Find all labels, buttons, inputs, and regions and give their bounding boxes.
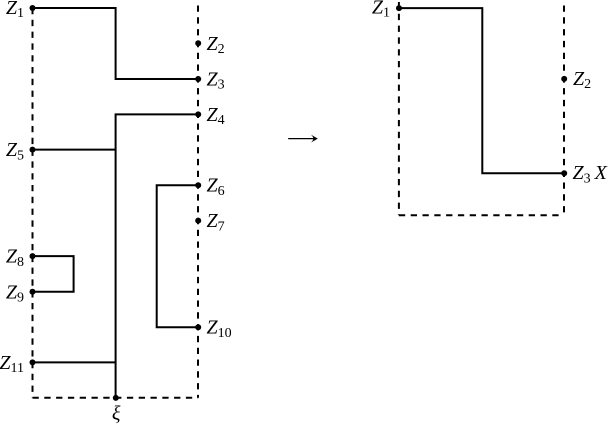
point Z6 — [195, 182, 201, 188]
right region dashed boundary right edge — [563, 6, 565, 216]
right region dashed boundary left edge — [398, 2, 400, 215]
wire from right Z1 to Z3X — [399, 8, 564, 173]
wire trunk from Z4 down to xi — [116, 114, 199, 398]
point Z3X — [561, 170, 567, 176]
left region dashed boundary bottom edge — [33, 397, 199, 399]
left region dashed boundary left edge — [32, 8, 34, 398]
svg-text:Z1: Z1 — [6, 0, 24, 21]
point Z5 — [30, 147, 36, 153]
svg-text:Z3X: Z3X — [573, 162, 608, 186]
point Z10 — [195, 324, 201, 330]
right region dashed boundary bottom edge — [399, 214, 564, 216]
svg-text:Z10: Z10 — [207, 317, 232, 341]
svg-text:Z1: Z1 — [372, 0, 390, 21]
point Z7 — [195, 218, 201, 224]
svg-text:Z5: Z5 — [6, 139, 24, 163]
point Z1 — [30, 5, 36, 11]
svg-text:Z3: Z3 — [207, 69, 225, 93]
point xi — [113, 395, 119, 401]
arrow shaft — [288, 138, 313, 140]
point Z4 — [195, 111, 201, 117]
wire bracket from Z6 to Z10 — [157, 185, 199, 327]
svg-text:Z6: Z6 — [207, 175, 225, 199]
wire from Z11 to trunk — [33, 361, 116, 363]
point Z3 — [195, 76, 201, 82]
svg-text:Z2: Z2 — [573, 68, 591, 92]
arrow head — [311, 135, 318, 143]
point right Z2 — [561, 76, 567, 82]
svg-text:Z9: Z9 — [6, 281, 24, 305]
point Z11 — [30, 359, 36, 365]
point right Z1 — [396, 5, 402, 11]
wire from Z1 to Z3 — [33, 8, 199, 79]
point Z9 — [30, 289, 36, 295]
point Z2 — [195, 40, 201, 46]
svg-text:Z8: Z8 — [6, 246, 24, 270]
wire bracket from Z8 to Z9 — [33, 256, 74, 292]
svg-text:ξ: ξ — [112, 403, 121, 425]
svg-text:Z11: Z11 — [0, 352, 24, 376]
left region dashed boundary right edge — [197, 6, 199, 398]
point Z8 — [30, 253, 36, 259]
svg-text:Z4: Z4 — [207, 104, 225, 128]
wire from Z5 to trunk — [33, 149, 116, 151]
svg-text:Z7: Z7 — [207, 210, 225, 234]
svg-text:Z2: Z2 — [207, 33, 225, 57]
